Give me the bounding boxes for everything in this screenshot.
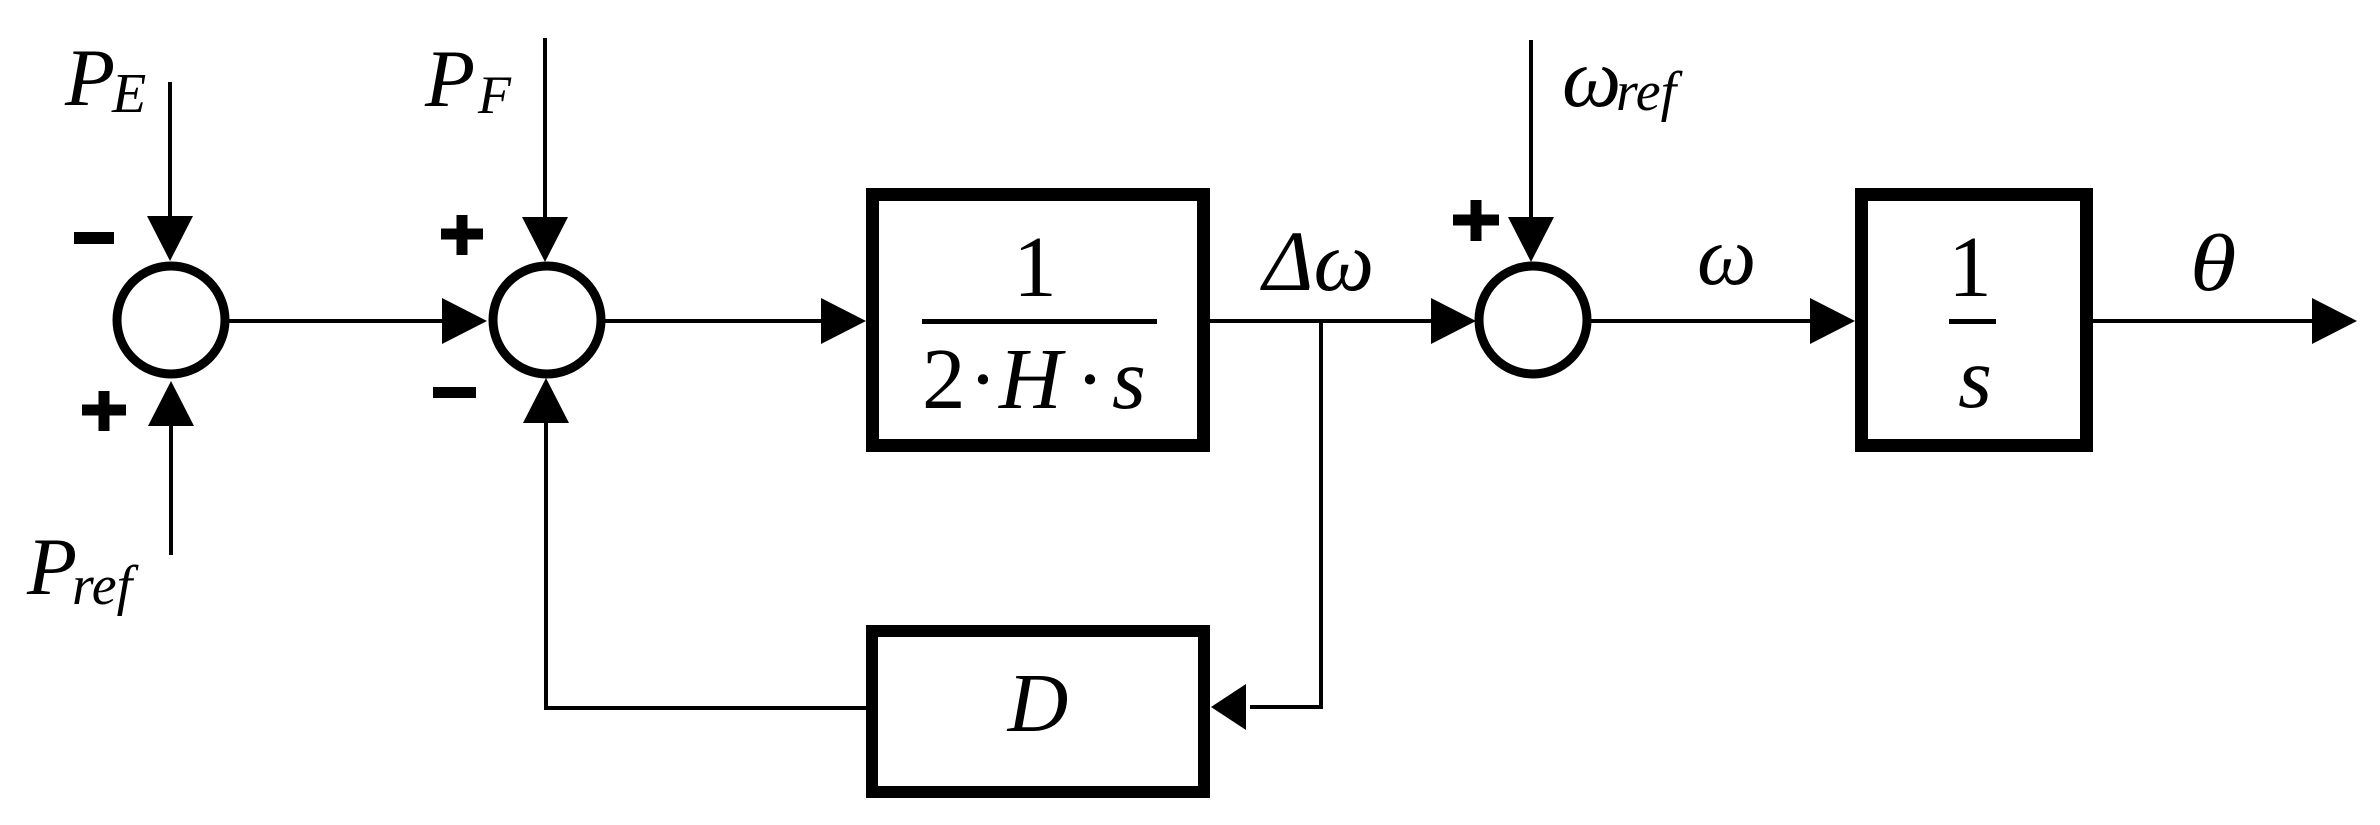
wire P_F input — [543, 38, 547, 230]
svg-text:P: P — [64, 32, 115, 123]
summing junction S3 — [1479, 266, 1587, 374]
svg-text:P: P — [26, 521, 77, 612]
svg-text:F: F — [477, 65, 512, 125]
minus sign at S1 top input — [74, 232, 114, 244]
label theta — [2190, 219, 2236, 308]
svg-text:P: P — [424, 33, 475, 124]
svg-text:D: D — [1007, 657, 1069, 750]
wire S2 to block 1/(2Hs) — [601, 319, 825, 323]
svg-text:θ: θ — [2190, 219, 2236, 308]
svg-text:1: 1 — [1013, 218, 1057, 315]
plus sign at S2 top input — [441, 215, 483, 255]
node branch of delta-omega — [1319, 319, 1323, 709]
wire feedback riser into S2 bottom — [544, 420, 548, 710]
fraction bar of 1/s — [1949, 319, 1996, 324]
svg-text:1: 1 — [1948, 218, 1992, 315]
svg-text:H: H — [998, 330, 1066, 427]
plus sign at S1 bottom input — [82, 391, 126, 431]
block 1/(2Hs) — [873, 195, 1204, 446]
wire S3 to block 1/s — [1587, 319, 1814, 323]
svg-text:·: · — [969, 330, 998, 427]
svg-text:E: E — [111, 63, 146, 125]
svg-text:s: s — [1958, 329, 1992, 426]
wire branch to D input — [1250, 705, 1323, 709]
wire D output to feedback riser — [544, 706, 866, 710]
svg-text:s: s — [1112, 330, 1146, 427]
minus sign at S2 bottom input — [433, 387, 476, 398]
svg-text:ref: ref — [1616, 61, 1684, 123]
fraction bar of 1/(2Hs) — [922, 319, 1157, 324]
wire output theta — [2093, 319, 2316, 323]
svg-text:ω: ω — [1562, 32, 1621, 125]
svg-text:ω: ω — [1697, 210, 1756, 303]
wire S1 to S2 — [229, 319, 448, 323]
wire P_ref input — [169, 420, 173, 555]
wire omega_ref input — [1529, 40, 1533, 230]
summing junction S2 — [493, 266, 601, 374]
svg-text:·: · — [1076, 330, 1105, 427]
svg-text:2: 2 — [922, 330, 966, 427]
svg-text:Δω: Δω — [1260, 213, 1374, 309]
svg-text:ref: ref — [72, 555, 140, 617]
wire block 1/(2Hs) to S3 — [1209, 319, 1435, 323]
wire P_E input — [168, 82, 172, 230]
plus sign at S3 top input — [1453, 200, 1499, 241]
block D — [872, 631, 1204, 792]
summing junction S1 — [117, 266, 225, 374]
block 1/s — [1862, 195, 2087, 446]
